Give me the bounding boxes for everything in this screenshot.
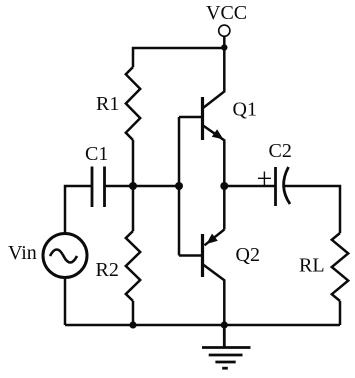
svg-text:+: +: [257, 164, 273, 195]
wire top rail: [133, 48, 224, 67]
ground: [202, 325, 251, 368]
junction dot base node: [175, 182, 183, 190]
svg-text:R1: R1: [96, 93, 119, 115]
svg-text:Vin: Vin: [8, 242, 37, 264]
junction dot output node: [220, 182, 228, 190]
svg-text:C2: C2: [269, 140, 292, 162]
wire VCC lead: [223, 36, 226, 48]
junction dot ground node: [221, 321, 228, 328]
svg-text:R2: R2: [96, 259, 119, 281]
svg-text:Q1: Q1: [233, 99, 257, 121]
source Vin: [43, 234, 87, 278]
junction dot bias node: [129, 182, 137, 190]
wire base branch vertical: [178, 117, 181, 256]
svg-text:C1: C1: [85, 143, 108, 165]
wire C2 to RL: [284, 186, 340, 233]
capacitor C2: [276, 167, 291, 206]
wire R1 to input node: [132, 140, 135, 186]
wire bottom rail: [65, 324, 340, 327]
resistor R1: [126, 67, 140, 140]
wire RL to ground rail: [339, 301, 342, 325]
svg-text:Q2: Q2: [236, 244, 260, 266]
VCC terminal: [219, 25, 230, 36]
capacitor C1: [92, 167, 105, 208]
junction dot R2 bottom: [129, 321, 136, 328]
svg-text:RL: RL: [299, 255, 325, 277]
resistor R2: [126, 231, 140, 301]
wire R2 bottom lead: [132, 301, 135, 325]
resistor RL: [332, 233, 348, 301]
wire Vin to bottom rail: [64, 278, 67, 326]
wire R2 top lead: [132, 186, 135, 231]
transistor Q2: [179, 186, 224, 325]
svg-text:VCC: VCC: [206, 2, 247, 24]
wire C1 to base node: [105, 185, 180, 188]
wire input left branch: [65, 186, 92, 234]
junction dot VCC rail: [221, 44, 227, 50]
transistor Q1: [179, 48, 224, 186]
wire output to C2: [224, 185, 275, 188]
